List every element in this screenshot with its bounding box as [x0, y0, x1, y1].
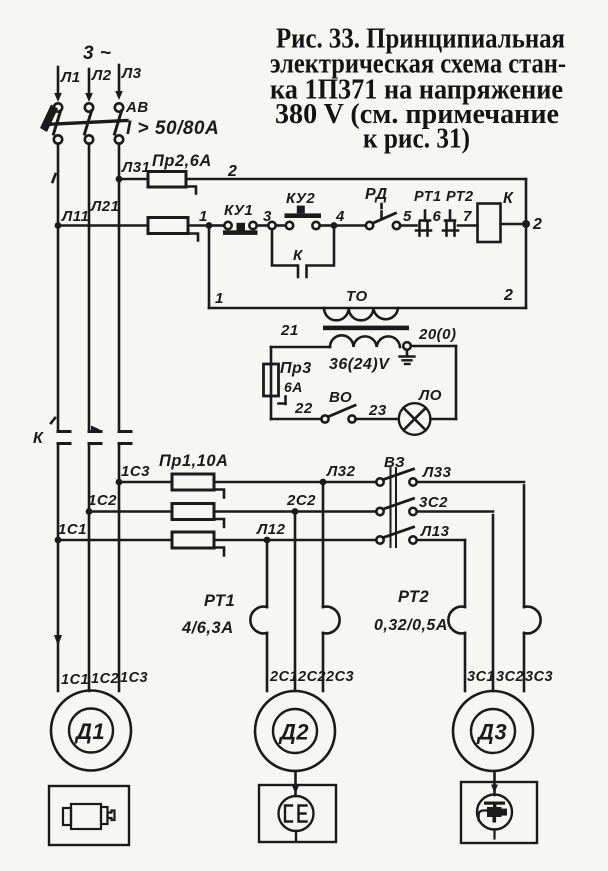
pushbutton КУ2 (start, NO): [285, 206, 322, 230]
pressure relay contact РД: [366, 204, 400, 229]
node 1С2 junction: [86, 508, 93, 515]
contact K self-holding branch: [272, 229, 334, 277]
heater РТ2 element right: [524, 607, 541, 634]
heater РТ1 label: [181, 592, 235, 637]
svg-text:5: 5: [403, 208, 412, 225]
wire РТ2 to coil K: [458, 224, 478, 227]
svg-text:Л13: Л13: [420, 523, 450, 540]
wire feed L2 with arrow: [85, 69, 93, 102]
svg-text:2: 2: [503, 287, 513, 304]
svg-text:1С3: 1С3: [121, 463, 150, 480]
svg-text:Л33: Л33: [422, 464, 452, 481]
wire phase line 3 lower: [118, 444, 121, 692]
arrow on line 1: [54, 635, 62, 646]
node 2: [522, 220, 530, 228]
wire transformer primary run: [209, 307, 526, 310]
svg-text:1С3: 1С3: [120, 670, 148, 686]
node 1С3 junction: [116, 479, 123, 486]
node Л32 junction: [320, 479, 327, 486]
wire РД to contact 5: [400, 224, 416, 227]
svg-text:3С3: 3С3: [525, 669, 553, 685]
motor lead labels 2С1 2С2 2С3: [269, 669, 354, 685]
svg-text:2: 2: [532, 216, 542, 233]
wire 20(0) to right side: [411, 345, 456, 348]
wire node 3 to КУ2: [276, 224, 286, 227]
wire 2С1 drop: [266, 540, 269, 691]
svg-text:РТ1: РТ1: [204, 592, 235, 610]
terminal 20(0): [403, 342, 411, 350]
svg-text:1С2: 1С2: [88, 492, 117, 509]
svg-text:ЛО: ЛО: [418, 387, 442, 404]
wire feed L3 with arrow: [115, 65, 123, 100]
node Л12 junction: [264, 537, 271, 544]
wire row2 fuse to ВЗ: [214, 510, 376, 513]
wire Д3 to box 3: [491, 771, 498, 795]
machine unit 1 icon (spindle motor): [63, 804, 115, 829]
switch ВЗ gang bar: [391, 468, 397, 547]
svg-text:Л21: Л21: [90, 198, 120, 215]
machine unit box 2: [259, 785, 336, 842]
svg-text:6А: 6А: [284, 379, 303, 395]
svg-text:КУ1: КУ1: [224, 202, 253, 219]
caption text: [270, 24, 566, 155]
heater РТ1 element left: [250, 607, 267, 634]
breaker AB pole 3: [115, 103, 124, 143]
svg-text:3С1: 3С1: [467, 669, 495, 685]
svg-text:ВО: ВО: [329, 389, 352, 406]
svg-text:23: 23: [368, 402, 387, 419]
wire feed L1 with arrow: [54, 67, 62, 102]
thermal contacts labels РТ1 РТ2: [414, 189, 474, 205]
svg-text:7: 7: [463, 208, 472, 225]
svg-text:1С1: 1С1: [61, 672, 89, 688]
svg-text:Л31: Л31: [121, 159, 151, 176]
switch ВЗ pole 3: [376, 527, 416, 544]
wire coil K to node 2: [501, 223, 524, 226]
svg-text:Л12: Л12: [256, 521, 286, 538]
svg-text:Л3: Л3: [121, 65, 142, 82]
svg-text:РТ2: РТ2: [446, 189, 474, 205]
wire 21 to left side: [271, 346, 330, 349]
fuse Пр2 lower: [148, 218, 198, 241]
svg-text:Л32: Л32: [326, 463, 356, 480]
svg-text:4/6,3А: 4/6,3А: [181, 619, 234, 637]
svg-text:0,32/0,5А: 0,32/0,5А: [374, 617, 448, 634]
svg-text:20(0): 20(0): [418, 326, 457, 343]
thermal relay contact РТ1: [416, 211, 431, 236]
fuse Пр1 pole 1: [172, 474, 224, 498]
svg-text:РД: РД: [365, 186, 388, 203]
motor Д3: [453, 691, 533, 771]
node 3 terminal: [268, 222, 275, 229]
svg-text:к рис. 31): к рис. 31): [363, 124, 470, 155]
wire row1 to fuse: [119, 481, 172, 484]
tick on line 1: [53, 174, 56, 182]
motor lead labels 3С1 3С2 3С3: [467, 669, 553, 685]
switch ВЗ pole 1: [376, 469, 416, 486]
contactor K main contact pole 3: [119, 432, 131, 444]
wire ВО to lamp: [356, 418, 399, 421]
node Л11 junction: [55, 222, 62, 229]
contactor K contacts label: [33, 418, 55, 447]
svg-text:Д1: Д1: [74, 719, 105, 744]
contactor K main contact pole 2: [89, 426, 101, 444]
node 1: [206, 222, 213, 229]
fuse Пр3: [264, 364, 286, 404]
machine unit 3 icon (coolant pump tap): [477, 795, 512, 839]
heater РТ2 element left: [448, 607, 465, 634]
machine unit box 3: [461, 782, 537, 843]
svg-text:К: К: [503, 190, 514, 207]
svg-text:22: 22: [294, 400, 313, 417]
node Л31 junction: [116, 176, 123, 183]
breaker AB handle: [40, 105, 58, 133]
svg-text:1: 1: [199, 208, 208, 225]
svg-text:3С2: 3С2: [496, 669, 524, 685]
wire 2 right drop: [525, 179, 528, 308]
heater РТ1 element right: [323, 607, 340, 634]
motor lead labels 1С1 1С2 1С3: [61, 670, 148, 688]
wire КУ2 to node 4: [320, 224, 331, 227]
lamp ЛО: [399, 403, 431, 435]
wire lamp loop left lower: [270, 396, 273, 419]
wire 2 top run: [186, 178, 526, 181]
wire node 4 to РД: [337, 224, 365, 227]
contactor coil K: [478, 204, 501, 243]
svg-text:КУ2: КУ2: [286, 190, 315, 207]
wire 3С2 run: [417, 510, 493, 513]
wire 2С2 drop: [294, 515, 297, 691]
wire 22 run: [271, 418, 321, 421]
wire Л33 run: [417, 481, 524, 484]
wire Л31 to fuse: [119, 178, 148, 181]
svg-text:6: 6: [433, 208, 442, 225]
svg-text:Л2: Л2: [91, 67, 112, 84]
wire row3 to fuse: [58, 539, 172, 542]
wire Л11 to fuse: [58, 224, 148, 227]
wire phase line 3 upper: [118, 144, 121, 432]
transformer ТО primary winding: [324, 308, 398, 320]
svg-text:4: 4: [335, 208, 345, 225]
svg-text:Пр2,6А: Пр2,6А: [152, 152, 212, 170]
switch ВО: [321, 405, 355, 422]
fuse Пр2 upper: [148, 172, 196, 194]
breaker AB crossbar: [46, 121, 127, 125]
svg-text:Л1: Л1: [60, 69, 81, 86]
svg-text:1С2: 1С2: [91, 671, 119, 687]
wire phase line 2 lower: [88, 444, 91, 692]
svg-text:2С3: 2С3: [325, 669, 354, 685]
svg-text:Д2: Д2: [278, 720, 309, 745]
thermal relay contact РТ2: [443, 211, 458, 236]
svg-text:Пр3: Пр3: [280, 360, 312, 377]
svg-text:Д3: Д3: [476, 720, 507, 745]
svg-text:К: К: [293, 247, 304, 264]
wire row1 fuse to ВЗ: [214, 481, 376, 484]
svg-text:1С1: 1С1: [58, 521, 87, 538]
node 1С1 junction: [55, 537, 62, 544]
wire node1 to КУ1: [212, 224, 224, 227]
svg-text:36(24)V: 36(24)V: [329, 356, 390, 373]
transformer ТО core: [323, 326, 409, 331]
heater РТ2 label: [374, 588, 448, 634]
wire lamp to right side: [430, 418, 456, 421]
fuse Пр1 pole 3: [172, 532, 224, 556]
svg-text:Л11: Л11: [61, 208, 89, 225]
svg-text:ТО: ТО: [346, 288, 368, 305]
node 4: [331, 222, 338, 229]
wire lamp loop right side: [455, 346, 458, 419]
svg-text:Пр1,10А: Пр1,10А: [159, 452, 228, 470]
wire lamp loop left upper: [270, 347, 273, 365]
svg-text:2С1: 2С1: [269, 669, 298, 685]
fuse Пр1 pole 2: [172, 504, 224, 528]
wire Л13 run: [417, 539, 465, 542]
node 2С2 junction: [292, 508, 299, 515]
machine unit 2 icon (hydraulic pump): [279, 796, 314, 842]
svg-text:2С2: 2С2: [286, 492, 316, 509]
svg-text:РТ2: РТ2: [398, 588, 429, 606]
wire fuse to node 1: [188, 224, 206, 227]
svg-text:АВ: АВ: [125, 99, 149, 116]
wire phase line 1 upper: [57, 144, 60, 432]
transformer ТО secondary winding: [330, 335, 400, 347]
switch ВЗ pole 2: [376, 499, 416, 516]
wire Д2 to box 2: [292, 771, 299, 796]
svg-text:1: 1: [215, 290, 224, 307]
wire phase line 2 upper: [88, 144, 91, 432]
wire 3С2 drop: [492, 515, 495, 691]
ground symbol: [400, 350, 415, 364]
svg-text:К: К: [33, 430, 44, 447]
svg-text:РТ1: РТ1: [414, 189, 442, 205]
breaker AB pole 1: [54, 103, 63, 143]
wire КУ1 to node 3: [257, 224, 269, 227]
wire row3 fuse to ВЗ: [214, 539, 376, 542]
pushbutton КУ1 (stop, NC): [223, 222, 258, 235]
contactor K main contact pole 1: [58, 432, 70, 444]
breaker AB pole 2: [85, 103, 94, 143]
wire node 1 drop to transformer: [208, 229, 211, 308]
svg-text:2С2: 2С2: [297, 669, 326, 685]
svg-text:3С2: 3С2: [419, 494, 448, 511]
svg-text:21: 21: [280, 322, 299, 339]
wire row2 to fuse: [89, 510, 172, 513]
wire 2С3 drop: [322, 485, 325, 691]
svg-text:3 ~: 3 ~: [83, 43, 111, 64]
wire 3С1 drop: [464, 540, 467, 691]
machine unit box 1: [49, 786, 129, 845]
svg-text:ВЗ: ВЗ: [384, 454, 405, 471]
motor Д1: [51, 691, 131, 771]
svg-text:2: 2: [227, 163, 237, 180]
svg-text:3: 3: [263, 208, 272, 225]
wire 3С3 drop: [523, 485, 526, 691]
wire phase line 1 lower: [57, 444, 60, 692]
svg-text:I > 50/80А: I > 50/80А: [126, 118, 219, 139]
motor Д2: [255, 691, 335, 771]
